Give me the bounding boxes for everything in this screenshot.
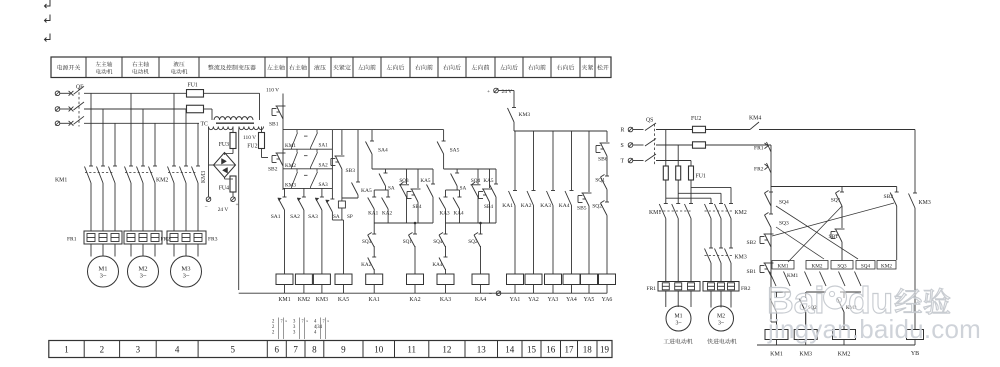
svg-text:110 V: 110 V xyxy=(243,135,256,141)
svg-text:+: + xyxy=(235,202,238,208)
svg-text:M1: M1 xyxy=(674,314,682,320)
svg-text:1: 1 xyxy=(64,345,69,355)
svg-text:KA5: KA5 xyxy=(483,178,493,184)
svg-text:M3: M3 xyxy=(181,266,191,273)
svg-text:24 V: 24 V xyxy=(218,207,229,213)
svg-text:FR3: FR3 xyxy=(208,237,218,243)
svg-text:SA4: SA4 xyxy=(378,148,388,154)
svg-text:SQ2: SQ2 xyxy=(468,239,478,245)
svg-text:SQ4: SQ4 xyxy=(471,178,481,184)
svg-text:KA3: KA3 xyxy=(540,203,551,209)
svg-text:YA4: YA4 xyxy=(566,297,577,303)
svg-text:SQ1: SQ1 xyxy=(831,198,841,204)
svg-text:110 V: 110 V xyxy=(266,88,279,94)
svg-text:M2: M2 xyxy=(717,314,725,320)
svg-text:M2: M2 xyxy=(138,266,147,273)
svg-text:7: 7 xyxy=(302,319,304,324)
svg-text:17: 17 xyxy=(565,345,575,355)
svg-text:SQ4: SQ4 xyxy=(861,263,871,269)
svg-text:13: 13 xyxy=(477,345,487,355)
svg-text:SB4: SB4 xyxy=(484,204,493,210)
svg-text:+: + xyxy=(487,89,490,95)
svg-text:SA3: SA3 xyxy=(308,214,318,220)
svg-text:KM1: KM1 xyxy=(278,297,290,303)
svg-text:YB: YB xyxy=(911,351,919,357)
svg-text:YA2: YA2 xyxy=(528,297,539,303)
svg-text:SB2: SB2 xyxy=(884,194,894,200)
svg-text:YA3: YA3 xyxy=(548,297,559,303)
svg-text:SP: SP xyxy=(347,214,353,220)
svg-text:FR2: FR2 xyxy=(161,237,171,243)
svg-text:YA5: YA5 xyxy=(584,297,595,303)
svg-text:FU4: FU4 xyxy=(219,186,229,192)
svg-text:KM1: KM1 xyxy=(778,263,789,269)
svg-text:KA2: KA2 xyxy=(382,211,392,217)
svg-text:KA5: KA5 xyxy=(338,297,349,303)
svg-text:KA4: KA4 xyxy=(453,211,463,217)
svg-text:KA1: KA1 xyxy=(369,297,380,303)
svg-text:KM4: KM4 xyxy=(749,116,761,122)
svg-text:6: 6 xyxy=(275,345,280,355)
svg-text:FR2: FR2 xyxy=(754,167,764,173)
svg-text:SA1: SA1 xyxy=(271,214,281,220)
svg-text:7: 7 xyxy=(323,319,325,324)
svg-text:3~: 3~ xyxy=(140,273,147,280)
svg-text:SB1: SB1 xyxy=(829,234,839,240)
svg-text:19: 19 xyxy=(600,345,610,355)
svg-text:SB1: SB1 xyxy=(747,269,757,275)
svg-text:SA2: SA2 xyxy=(290,214,300,220)
svg-text:3~: 3~ xyxy=(183,273,190,280)
svg-text:KA1: KA1 xyxy=(368,211,378,217)
svg-text:KA2: KA2 xyxy=(409,297,420,303)
svg-text:14: 14 xyxy=(505,345,515,355)
svg-text:SB3: SB3 xyxy=(346,168,356,174)
svg-text:TC: TC xyxy=(201,122,209,128)
svg-text:3~: 3~ xyxy=(100,273,107,280)
svg-text:KM3: KM3 xyxy=(519,112,531,118)
svg-text:SB2: SB2 xyxy=(747,240,757,246)
svg-text:FU1: FU1 xyxy=(188,83,198,89)
svg-text:R: R xyxy=(621,128,625,134)
svg-text:KA4: KA4 xyxy=(432,262,442,268)
svg-text:KA2: KA2 xyxy=(361,262,371,268)
svg-text:FR1: FR1 xyxy=(754,146,764,152)
svg-text:18: 18 xyxy=(583,345,593,355)
svg-text:SA5: SA5 xyxy=(450,148,460,154)
svg-text:KM1: KM1 xyxy=(55,178,67,184)
svg-text:SB4: SB4 xyxy=(413,204,422,210)
svg-text:YA6: YA6 xyxy=(602,297,613,303)
svg-text:SA: SA xyxy=(460,186,467,192)
svg-text:SQ1: SQ1 xyxy=(595,178,605,184)
svg-text:SQ3: SQ3 xyxy=(779,221,789,227)
svg-text:KA4: KA4 xyxy=(475,297,486,303)
svg-text:SQ4: SQ4 xyxy=(779,200,789,206)
svg-text:QS: QS xyxy=(646,118,653,124)
svg-text:FU1: FU1 xyxy=(696,174,706,180)
svg-text:FU3: FU3 xyxy=(219,142,229,148)
svg-text:SB5: SB5 xyxy=(577,206,587,212)
svg-text:−: − xyxy=(204,204,207,210)
svg-text:YA1: YA1 xyxy=(510,297,521,303)
svg-text:T: T xyxy=(621,159,625,165)
svg-text:7: 7 xyxy=(281,319,283,324)
svg-text:KM2: KM2 xyxy=(735,210,747,216)
svg-text:KA3: KA3 xyxy=(439,211,449,217)
svg-text:3~: 3~ xyxy=(675,321,681,327)
svg-text:KM2: KM2 xyxy=(838,352,851,358)
svg-text:SA1: SA1 xyxy=(319,143,329,149)
svg-text:SA: SA xyxy=(388,186,395,192)
svg-text:KM2: KM2 xyxy=(881,263,892,269)
svg-text:FR1: FR1 xyxy=(647,286,657,292)
svg-text:3~: 3~ xyxy=(718,321,724,327)
svg-text:KA3: KA3 xyxy=(440,297,451,303)
svg-text:KM2: KM2 xyxy=(285,163,296,169)
svg-text:KM3: KM3 xyxy=(735,255,747,261)
svg-text:KM2: KM2 xyxy=(812,263,823,269)
svg-text:−: − xyxy=(489,292,492,298)
svg-text:10: 10 xyxy=(374,345,384,355)
svg-text:SA2: SA2 xyxy=(319,162,329,168)
svg-text:SB2: SB2 xyxy=(268,167,278,173)
svg-text:11: 11 xyxy=(407,345,416,355)
svg-text:SQ2: SQ2 xyxy=(592,204,602,210)
svg-text:SQ1: SQ1 xyxy=(403,239,413,245)
svg-text:9: 9 xyxy=(341,345,346,355)
svg-text:KA5: KA5 xyxy=(420,178,430,184)
svg-text:KM3: KM3 xyxy=(285,182,296,188)
svg-text:4|34: 4|34 xyxy=(314,325,323,330)
svg-text:KM2: KM2 xyxy=(156,178,168,184)
svg-text:FR2: FR2 xyxy=(741,286,751,292)
svg-text:KM1: KM1 xyxy=(285,143,296,149)
svg-text:SA: SA xyxy=(333,214,340,220)
svg-text:SA3: SA3 xyxy=(319,182,329,188)
svg-text:FU2: FU2 xyxy=(247,144,257,150)
svg-text:24 V: 24 V xyxy=(502,89,513,95)
svg-text:SB1: SB1 xyxy=(269,122,279,128)
svg-text:FU2: FU2 xyxy=(691,116,701,122)
svg-text:SQ3: SQ3 xyxy=(837,263,847,269)
svg-text:KA5: KA5 xyxy=(361,188,372,194)
svg-text:KM1: KM1 xyxy=(770,352,783,358)
svg-text:SQ3: SQ3 xyxy=(399,178,409,184)
svg-text:SQ4: SQ4 xyxy=(433,239,443,245)
svg-text:5: 5 xyxy=(230,345,235,355)
svg-text:KM1: KM1 xyxy=(649,210,661,216)
svg-text:SB6: SB6 xyxy=(598,157,608,163)
svg-text:KA1: KA1 xyxy=(502,203,513,209)
svg-text:FR1: FR1 xyxy=(67,237,77,243)
svg-text:SQ3: SQ3 xyxy=(362,239,372,245)
svg-text:4: 4 xyxy=(175,345,180,355)
svg-text:KA2: KA2 xyxy=(521,203,532,209)
svg-text:2: 2 xyxy=(100,345,105,355)
svg-text:KM2: KM2 xyxy=(298,297,310,303)
svg-text:jingyan.baidu.com: jingyan.baidu.com xyxy=(767,314,981,344)
svg-text:KM3: KM3 xyxy=(919,200,931,206)
svg-text:KM3: KM3 xyxy=(799,352,812,358)
svg-text:KA4: KA4 xyxy=(559,203,570,209)
svg-text:15: 15 xyxy=(527,345,537,355)
svg-text:3: 3 xyxy=(136,345,141,355)
svg-text:8: 8 xyxy=(312,345,317,355)
svg-text:KM3: KM3 xyxy=(201,171,207,183)
svg-text:16: 16 xyxy=(546,345,556,355)
svg-text:7: 7 xyxy=(293,345,298,355)
svg-text:KM1: KM1 xyxy=(787,273,799,279)
svg-text:M1: M1 xyxy=(98,266,107,273)
svg-text:12: 12 xyxy=(442,345,451,355)
svg-text:KM3: KM3 xyxy=(316,297,328,303)
svg-text:S: S xyxy=(621,143,624,149)
